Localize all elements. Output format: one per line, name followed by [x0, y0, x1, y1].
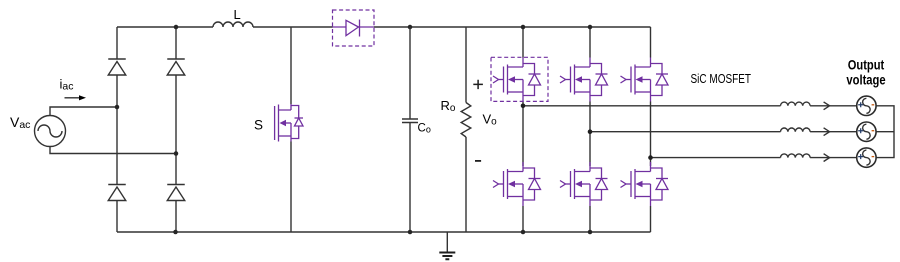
- node top rail cap: [408, 25, 413, 30]
- node top rail leg B: [588, 25, 593, 30]
- diode D5 boost: [346, 20, 359, 35]
- transistor Q4 SiC bottom leg B: [560, 162, 608, 206]
- wire bridge right leg: [175, 27, 177, 232]
- diode D1 bridge upper-left: [108, 59, 126, 75]
- node bottom rail leg B: [588, 230, 593, 235]
- source output phase A: [857, 96, 876, 115]
- dashed box SiC MOSFET: [491, 57, 548, 101]
- source output phase C: [857, 148, 876, 167]
- transistor Q1 SiC top leg A: [493, 58, 541, 102]
- inductor output phase A: [781, 102, 811, 106]
- svg-text:SiC MOSFET: SiC MOSFET: [691, 72, 752, 86]
- wire capacitor branch: [409, 27, 411, 232]
- sine symbol in Vac: [38, 125, 62, 137]
- inductor output phase C: [781, 154, 811, 158]
- wire resistor branch: [465, 27, 467, 232]
- inductor output phase B: [781, 128, 811, 132]
- wire top rail: [117, 26, 651, 28]
- svg-text:L: L: [234, 7, 241, 22]
- svg-text:S: S: [254, 118, 263, 133]
- svg-text:voltage: voltage: [846, 71, 885, 87]
- wire boost diode purple: [333, 26, 375, 28]
- capacitor Co plates: [402, 119, 418, 123]
- wire bottom rail: [117, 231, 651, 233]
- arrow iac: [65, 97, 80, 99]
- wire output right bus: [876, 106, 894, 158]
- svg-text:Ro: Ro: [441, 98, 456, 114]
- svg-text:Vac: Vac: [10, 114, 30, 131]
- wire inverter leg A: [522, 27, 524, 232]
- node phase B: [588, 129, 593, 134]
- wire inverter leg B: [589, 27, 591, 232]
- transistor S boost MOSFET: [275, 104, 303, 142]
- wire phase B: [590, 131, 857, 133]
- node bottom rail cap: [408, 230, 413, 235]
- node phase A: [521, 104, 526, 109]
- node at right leg: [174, 151, 179, 156]
- transistor Q2 SiC bottom leg A: [493, 162, 541, 206]
- transistor Q6 SiC bottom leg C: [621, 162, 669, 206]
- diode D3 bridge lower-left: [108, 185, 126, 201]
- source Vac: [35, 116, 66, 147]
- arrow phase B: [824, 128, 830, 136]
- resistor Ro zigzag: [461, 103, 471, 137]
- node bottom rail leg A: [521, 230, 526, 235]
- wire phase A: [523, 105, 857, 107]
- arrow phase A: [824, 102, 830, 110]
- wire bridge left leg: [116, 27, 118, 232]
- node at left leg: [115, 105, 120, 110]
- svg-text:iac: iac: [60, 77, 74, 93]
- ground: [446, 232, 448, 252]
- svg-text:Output: Output: [848, 57, 885, 73]
- node bottom rail bridge: [173, 230, 178, 235]
- label minus: [475, 160, 481, 162]
- source output phase B: [857, 122, 876, 141]
- node top rail leg A: [521, 25, 526, 30]
- svg-text:Co: Co: [418, 123, 431, 135]
- node phase C: [648, 155, 653, 160]
- svg-text:Vo: Vo: [483, 112, 498, 128]
- wire boost switch branch: [290, 27, 292, 232]
- diode D4 bridge lower-right: [167, 185, 185, 201]
- wire Vac top lead: [50, 107, 117, 116]
- wire Vac bottom lead: [50, 147, 176, 154]
- wire phase C: [651, 157, 857, 159]
- wire inverter leg C: [650, 27, 652, 232]
- transistor Q3 SiC top leg B: [560, 58, 608, 102]
- label plus: [473, 80, 483, 89]
- arrow phase C: [824, 154, 830, 162]
- inductor L: [213, 22, 253, 27]
- node top rail bridge: [174, 25, 179, 30]
- diode D2 bridge upper-right: [167, 59, 185, 75]
- transistor Q5 SiC top leg C: [621, 58, 669, 102]
- dashed box boost diode: [333, 10, 375, 46]
